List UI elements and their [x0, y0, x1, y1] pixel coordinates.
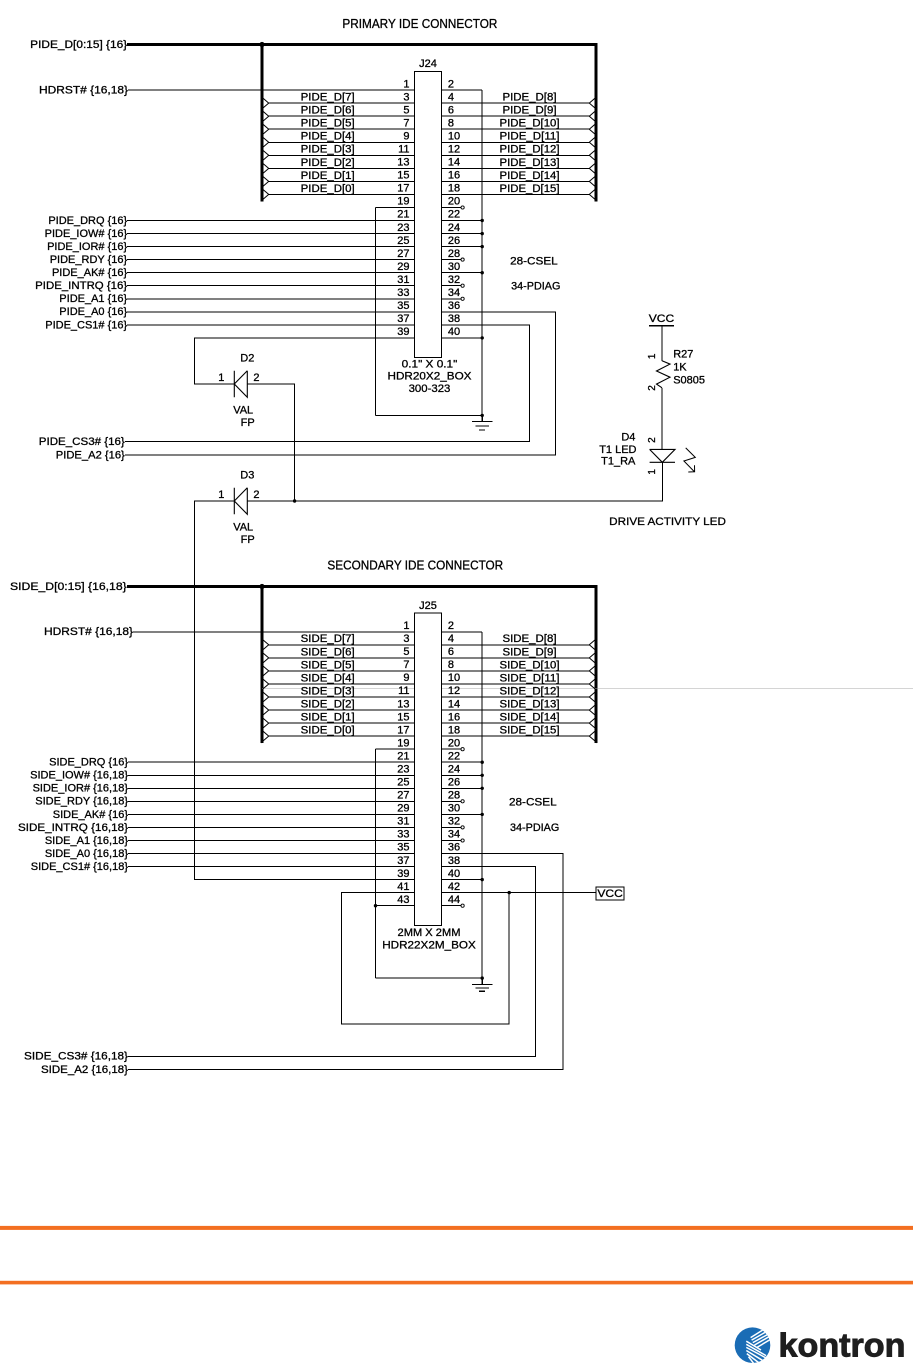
wire J24 pin 36 to PIDE_A2 [125, 312, 556, 455]
svg-text:SIDE_D[0:15] {16,18}: SIDE_D[0:15] {16,18} [10, 581, 127, 593]
wire SIDE_D[7] to J25 pin 3 [269, 644, 415, 646]
wire J24 pin 22 to gnd rail [442, 220, 483, 222]
wire SIDE_D[4] to J25 pin 9 [269, 683, 415, 685]
svg-text:29: 29 [397, 803, 409, 815]
svg-text:2: 2 [647, 385, 658, 391]
svg-text:26: 26 [448, 235, 460, 247]
svg-text:7: 7 [403, 117, 409, 129]
svg-text:42: 42 [448, 881, 460, 893]
wire J25 pin 36 to SIDE_A2 [128, 854, 563, 1070]
bus entry SIDE_D[5] (left) [261, 664, 269, 678]
svg-text:SIDE_D[0]: SIDE_D[0] [301, 725, 355, 737]
svg-text:6: 6 [448, 646, 454, 658]
svg-text:16: 16 [448, 170, 460, 182]
svg-text:21: 21 [397, 209, 409, 221]
svg-text:17: 17 [397, 724, 409, 736]
wire J24 pin 18 to bus entry PIDE_D[15] [442, 193, 590, 195]
svg-text:PIDE_AK# {16}: PIDE_AK# {16} [52, 267, 128, 279]
junction J24 pin 26 [481, 245, 484, 248]
svg-text:VCC: VCC [597, 888, 623, 900]
wire J25 pin 40 to gnd rail [442, 879, 483, 881]
svg-text:23: 23 [397, 764, 409, 776]
junction J25 pin 43 [374, 904, 377, 907]
wire PIDE_D[6] to J24 pin 5 [269, 115, 415, 117]
wire J25 pin 24 to gnd rail [442, 774, 483, 776]
svg-text:FP: FP [241, 417, 255, 429]
svg-text:SIDE_RDY {16,18}: SIDE_RDY {16,18} [35, 796, 128, 808]
svg-text:22: 22 [448, 750, 460, 762]
stray hairline artifact [262, 687, 913, 689]
svg-text:12: 12 [448, 685, 460, 697]
bus junction (secondary) [259, 584, 264, 589]
svg-text:28-CSEL: 28-CSEL [509, 796, 557, 808]
svg-text:S0805: S0805 [673, 375, 705, 387]
svg-text:32: 32 [448, 274, 460, 286]
bus entry PIDE_D[2] (left) [261, 162, 269, 176]
svg-text:J24: J24 [419, 58, 437, 70]
junction J24 pin 24 [481, 232, 484, 235]
junction gnd corner (J24) [481, 414, 484, 417]
wire PIDE_D[0] to J24 pin 17 [269, 193, 415, 195]
ground symbol J24 [472, 415, 493, 430]
svg-text:37: 37 [397, 855, 409, 867]
svg-text:SIDE_D[2]: SIDE_D[2] [301, 699, 355, 711]
svg-text:5: 5 [403, 646, 409, 658]
wire J25 pin 32 no-connect stub [442, 826, 462, 828]
wire PIDE_DRQ {16} to J24 pin 21 [127, 220, 414, 222]
svg-text:PIDE_D[11]: PIDE_D[11] [500, 131, 560, 143]
wire PIDE_CS1# {16} to J24 pin 37 [127, 324, 414, 326]
svg-text:36: 36 [448, 842, 460, 854]
svg-text:PIDE_IOW# {16}: PIDE_IOW# {16} [45, 228, 128, 240]
svg-text:HDR20X2_BOX: HDR20X2_BOX [388, 371, 473, 383]
wire J24 pin 38 to PIDE_CS3# [125, 325, 530, 442]
bus left vertical drop at x=262 [260, 45, 263, 202]
wire J24 pin 24 to gnd rail [442, 233, 483, 235]
svg-text:39: 39 [397, 326, 409, 338]
no-connect J25 pin 28 [461, 800, 464, 803]
wire gnd vertical x=375.5 (J24) [375, 208, 377, 416]
svg-text:44: 44 [448, 894, 460, 906]
svg-text:1: 1 [647, 469, 658, 475]
svg-text:SIDE_D[7]: SIDE_D[7] [301, 633, 355, 645]
svg-text:PIDE_INTRQ {16}: PIDE_INTRQ {16} [35, 280, 127, 292]
svg-text:2: 2 [647, 437, 658, 443]
gnd rail vertical x=482.2 (J25) [481, 632, 483, 985]
svg-text:13: 13 [397, 698, 409, 710]
svg-text:300-323: 300-323 [409, 383, 451, 395]
wire J24 pin 16 to bus entry PIDE_D[14] [442, 180, 590, 182]
no-connect J24 pin 34 [461, 297, 464, 300]
svg-text:PIDE_D[3]: PIDE_D[3] [301, 144, 355, 156]
wire gnd vertical x=375.5 (J25) [375, 749, 377, 978]
svg-text:SIDE_DRQ {16}: SIDE_DRQ {16} [49, 757, 128, 769]
svg-text:PIDE_IOR# {16}: PIDE_IOR# {16} [47, 241, 127, 253]
svg-text:SIDE_D[12]: SIDE_D[12] [500, 685, 560, 697]
svg-text:27: 27 [397, 790, 409, 802]
wire J24 pin 10 to bus entry PIDE_D[11] [442, 141, 590, 143]
svg-text:PIDE_A2 {16}: PIDE_A2 {16} [56, 449, 125, 461]
svg-text:SIDE_D[14]: SIDE_D[14] [500, 712, 560, 724]
svg-text:DRIVE ACTIVITY LED: DRIVE ACTIVITY LED [609, 516, 726, 528]
svg-text:SIDE_D[15]: SIDE_D[15] [500, 725, 560, 737]
svg-text:SIDE_D[13]: SIDE_D[13] [500, 699, 560, 711]
bus entry PIDE_D[5] (left) [261, 122, 269, 136]
svg-text:0.1" X 0.1": 0.1" X 0.1" [402, 358, 458, 370]
svg-text:41: 41 [397, 881, 409, 893]
svg-text:PIDE_D[10]: PIDE_D[10] [500, 118, 560, 130]
bus entry SIDE_D[2] (left) [261, 703, 269, 717]
svg-text:PIDE_A0 {16}: PIDE_A0 {16} [59, 306, 127, 318]
wire J25 pin 42 to VCC [442, 892, 596, 894]
bus left vertical drop at x=262 (secondary) [260, 587, 263, 744]
svg-text:1: 1 [218, 372, 224, 384]
svg-text:10: 10 [448, 672, 460, 684]
wire PIDE_D[7] to J24 pin 3 [269, 102, 415, 104]
svg-text:PIDE_A1 {16}: PIDE_A1 {16} [59, 293, 127, 305]
wire SIDE_D[5] to J25 pin 7 [269, 670, 415, 672]
wire J25 pin 19 gnd stub [376, 748, 415, 750]
svg-text:11: 11 [398, 144, 409, 156]
svg-text:PIDE_RDY {16}: PIDE_RDY {16} [50, 254, 128, 266]
svg-text:3: 3 [403, 633, 409, 645]
wire SIDE_DRQ {16} to J25 pin 21 [128, 761, 415, 763]
svg-text:25: 25 [397, 235, 409, 247]
bus entry PIDE_D[7] (left) [261, 96, 269, 110]
junction pin41/pin42 VCC node [508, 891, 511, 894]
junction J25 pin 24 [481, 774, 484, 777]
svg-text:43: 43 [397, 894, 409, 906]
wire J25 pin 22 to gnd rail [442, 761, 483, 763]
svg-text:PIDE_D[8]: PIDE_D[8] [503, 92, 557, 104]
wire J24 pin 32 no-connect stub [442, 285, 462, 287]
LED D4 symbol [650, 449, 675, 462]
svg-text:SIDE_A1 {16,18}: SIDE_A1 {16,18} [45, 835, 129, 847]
svg-text:20: 20 [448, 196, 460, 208]
svg-text:kontron: kontron [779, 1327, 906, 1364]
wire PIDE_A0 {16} to J24 pin 35 [127, 311, 414, 313]
svg-text:PIDE_D[12]: PIDE_D[12] [500, 144, 560, 156]
svg-text:HDR22X2M_BOX: HDR22X2M_BOX [382, 939, 476, 951]
svg-text:26: 26 [448, 777, 460, 789]
svg-text:34: 34 [448, 829, 460, 841]
svg-text:1: 1 [403, 78, 409, 90]
svg-text:34-PDIAG: 34-PDIAG [510, 822, 559, 834]
svg-text:SIDE_IOR# {16,18}: SIDE_IOR# {16,18} [33, 783, 129, 795]
svg-text:1: 1 [403, 620, 409, 632]
bus junction at (262,44.5) [259, 42, 264, 47]
svg-text:10: 10 [448, 131, 460, 143]
wire J24 pin 6 to bus entry PIDE_D[9] [442, 115, 590, 117]
wire SIDE_A1 {16,18} to J25 pin 33 [128, 840, 415, 842]
bus entry SIDE_D[3] (left) [261, 690, 269, 704]
svg-text:PIDE_DRQ {16}: PIDE_DRQ {16} [48, 215, 127, 227]
wire J24 pin 26 to gnd rail [442, 246, 483, 248]
wire SIDE_IOR# {16,18} to J25 pin 25 [128, 787, 415, 789]
wire D3 cathode to J25 pin 39 [195, 501, 415, 880]
svg-text:31: 31 [397, 816, 409, 828]
svg-text:36: 36 [448, 300, 460, 312]
svg-text:16: 16 [448, 711, 460, 723]
svg-text:PIDE_D[4]: PIDE_D[4] [301, 131, 355, 143]
wire SIDE_D[2] to J25 pin 13 [269, 709, 415, 711]
wire J25 pin 34 no-connect stub [442, 840, 462, 842]
junction J25 pin 26 [481, 787, 484, 790]
svg-text:29: 29 [397, 261, 409, 273]
no-connect J25 pin 34 [461, 839, 464, 842]
svg-text:SIDE_CS3# {16,18}: SIDE_CS3# {16,18} [24, 1051, 128, 1063]
wire J25 pin 6 to bus entry SIDE_D[9] [442, 657, 590, 659]
wire SIDE_RDY {16,18} to J25 pin 27 [128, 800, 415, 802]
svg-text:PIDE_D[6]: PIDE_D[6] [301, 105, 355, 117]
bus entry SIDE_D[12] (right) [589, 690, 597, 704]
svg-text:30: 30 [448, 261, 460, 273]
svg-text:31: 31 [397, 274, 409, 286]
bus entry SIDE_D[13] (right) [589, 703, 597, 717]
LED D4 light arrows [684, 448, 695, 472]
junction J25 pin 30 [481, 813, 484, 816]
wire J25 pin 43 to gnd vertical [376, 905, 415, 907]
bus entry PIDE_D[14] (right) [589, 175, 597, 189]
bus entry PIDE_D[9] (right) [589, 109, 597, 123]
svg-text:PIDE_D[0]: PIDE_D[0] [301, 183, 355, 195]
bus entry SIDE_D[11] (right) [589, 677, 597, 691]
svg-text:PIDE_CS3# {16}: PIDE_CS3# {16} [39, 436, 125, 448]
wire J24 pin 28 no-connect stub [442, 259, 462, 261]
svg-text:6: 6 [448, 104, 454, 116]
wire D2 anode to junction x=294.6 [247, 384, 294, 501]
svg-text:17: 17 [397, 183, 409, 195]
wire J25 pin 4 to bus entry SIDE_D[8] [442, 644, 590, 646]
bus entry SIDE_D[4] (left) [261, 677, 269, 691]
svg-text:9: 9 [403, 672, 409, 684]
wire SIDE_D[0] to J25 pin 17 [269, 735, 415, 737]
bus entry SIDE_D[9] (right) [589, 651, 597, 665]
wire J25 pin 26 to gnd rail [442, 787, 483, 789]
svg-text:3: 3 [403, 91, 409, 103]
svg-text:D4: D4 [621, 432, 635, 444]
svg-text:35: 35 [397, 842, 409, 854]
bus entry SIDE_D[14] (right) [589, 716, 597, 730]
svg-text:SIDE_IOW# {16,18}: SIDE_IOW# {16,18} [30, 770, 128, 782]
bus entry SIDE_D[8] (right) [589, 638, 597, 652]
wire LED cathode to drive-activity node [295, 462, 663, 501]
svg-text:PIDE_D[13]: PIDE_D[13] [500, 157, 560, 169]
no-connect J25 pin 44 [461, 904, 464, 907]
svg-text:HDRST# {16,18}: HDRST# {16,18} [39, 85, 128, 97]
svg-text:SIDE_D[10]: SIDE_D[10] [500, 659, 560, 671]
svg-text:37: 37 [397, 313, 409, 325]
svg-text:2: 2 [253, 489, 259, 501]
svg-text:VCC: VCC [649, 313, 675, 325]
wire SIDE_D[6] to J25 pin 5 [269, 657, 415, 659]
svg-text:8: 8 [448, 659, 454, 671]
wire J25 pin 2 to gnd rail [442, 631, 483, 633]
no-connect J25 pin 20 [461, 748, 464, 751]
svg-text:SIDE_CS1# {16,18}: SIDE_CS1# {16,18} [31, 861, 129, 873]
svg-text:11: 11 [398, 685, 409, 697]
svg-text:1: 1 [218, 489, 224, 501]
wire J25 pin 30 to gnd rail [442, 813, 483, 815]
wire J25 pin 12 to bus entry SIDE_D[12] [442, 696, 590, 698]
svg-text:PIDE_D[15]: PIDE_D[15] [500, 183, 560, 195]
svg-text:19: 19 [397, 196, 409, 208]
bus entry SIDE_D[10] (right) [589, 664, 597, 678]
wire SIDE_A0 {16,18} to J25 pin 35 [128, 853, 415, 855]
bus entry SIDE_D[7] (left) [261, 638, 269, 652]
svg-text:20: 20 [448, 737, 460, 749]
svg-text:SIDE_INTRQ {16,18}: SIDE_INTRQ {16,18} [18, 822, 128, 834]
svg-text:25: 25 [397, 777, 409, 789]
svg-text:38: 38 [448, 855, 460, 867]
wire J25 pin 16 to bus entry SIDE_D[14] [442, 722, 590, 724]
wire J24 pin 34 no-connect stub [442, 298, 462, 300]
svg-text:SIDE_D[1]: SIDE_D[1] [301, 712, 355, 724]
wire PIDE_IOW# {16} to J24 pin 23 [127, 233, 414, 235]
svg-text:SIDE_D[6]: SIDE_D[6] [301, 646, 355, 658]
wire J25 pin 20 no-connect stub [442, 748, 462, 750]
wire J25 pin 10 to bus entry SIDE_D[11] [442, 683, 590, 685]
svg-text:28: 28 [448, 248, 460, 260]
svg-text:30: 30 [448, 803, 460, 815]
svg-text:7: 7 [403, 659, 409, 671]
junction J24 pin 40 [481, 336, 484, 339]
wire J24 pin 40 to gnd rail [442, 337, 483, 339]
wire PIDE_AK# {16} to J24 pin 29 [127, 272, 414, 274]
junction J24 pin 22 [481, 219, 484, 222]
no-connect J25 pin 32 [461, 826, 464, 829]
wire R27 to LED D4 [661, 388, 663, 450]
wire HDRST# to J24 pin 1 [128, 89, 415, 91]
svg-text:1: 1 [647, 353, 658, 359]
ground symbol J25 [472, 978, 493, 991]
wire PIDE_IOR# {16} to J24 pin 25 [127, 246, 414, 248]
svg-text:PIDE_D[2]: PIDE_D[2] [301, 157, 355, 169]
svg-text:2MM X 2MM: 2MM X 2MM [398, 927, 461, 939]
svg-text:38: 38 [448, 313, 460, 325]
svg-text:27: 27 [397, 248, 409, 260]
svg-text:T1_RA: T1_RA [601, 455, 636, 467]
svg-text:2: 2 [448, 620, 454, 632]
svg-text:VAL: VAL [233, 405, 253, 417]
svg-text:28-CSEL: 28-CSEL [510, 255, 558, 267]
bus entry SIDE_D[1] (left) [261, 716, 269, 730]
svg-text:32: 32 [448, 816, 460, 828]
svg-text:PIDE_D[7]: PIDE_D[7] [301, 92, 355, 104]
wire J25 pin 8 to bus entry SIDE_D[10] [442, 670, 590, 672]
svg-text:9: 9 [403, 131, 409, 143]
wire PIDE_A1 {16} to J24 pin 33 [127, 298, 414, 300]
connector J24 body [415, 72, 442, 358]
wire J25 pin 18 to bus entry SIDE_D[15] [442, 735, 590, 737]
svg-text:34: 34 [448, 287, 460, 299]
wire PIDE_D[1] to J24 pin 15 [269, 180, 415, 182]
wire J24 pin 14 to bus entry PIDE_D[13] [442, 167, 590, 169]
svg-text:SIDE_D[8]: SIDE_D[8] [503, 633, 557, 645]
wire SIDE_D[3] to J25 pin 11 [269, 696, 415, 698]
svg-text:2: 2 [253, 372, 259, 384]
junction J25 pin 40 [481, 878, 484, 881]
wire J24 pin 2 to gnd rail [442, 89, 483, 91]
svg-text:SIDE_D[3]: SIDE_D[3] [301, 685, 355, 697]
svg-text:23: 23 [397, 222, 409, 234]
wire J25 pin 44 no-connect stub [442, 905, 462, 907]
footer orange rule upper [0, 1226, 913, 1230]
svg-text:PIDE_D[0:15] {16}: PIDE_D[0:15] {16} [30, 39, 127, 51]
wire PIDE_INTRQ {16} to J24 pin 31 [127, 285, 414, 287]
svg-text:D3: D3 [240, 469, 254, 481]
bus entry PIDE_D[8] (right) [589, 96, 597, 110]
svg-text:SECONDARY IDE CONNECTOR: SECONDARY IDE CONNECTOR [327, 558, 503, 573]
bus entry PIDE_D[15] (right) [589, 188, 597, 202]
wire gnd bottom horizontal (J24) [376, 414, 483, 416]
no-connect J24 pin 32 [461, 284, 464, 287]
svg-text:39: 39 [397, 868, 409, 880]
svg-text:SIDE_D[5]: SIDE_D[5] [301, 659, 355, 671]
svg-text:FP: FP [241, 534, 255, 546]
svg-text:22: 22 [448, 209, 460, 221]
junction D2/D3/LED node [293, 499, 296, 502]
svg-text:D2: D2 [240, 352, 254, 364]
svg-text:34-PDIAG: 34-PDIAG [511, 281, 560, 293]
wire J25 pin 28 no-connect stub [442, 800, 462, 802]
wire J25 pin 41 U-route [342, 893, 510, 1024]
wire J24 pin 8 to bus entry PIDE_D[10] [442, 128, 590, 130]
svg-text:J25: J25 [419, 600, 437, 612]
svg-text:SIDE_D[11]: SIDE_D[11] [500, 672, 560, 684]
svg-text:40: 40 [448, 868, 460, 880]
wire D3 anode to junction [247, 500, 294, 502]
bus entry PIDE_D[3] (left) [261, 149, 269, 163]
connector J25 body [415, 613, 442, 925]
svg-text:19: 19 [397, 737, 409, 749]
resistor R27 zigzag [657, 361, 671, 388]
svg-text:18: 18 [448, 724, 460, 736]
bus entry SIDE_D[15] (right) [589, 729, 597, 743]
bus SIDE_D[0:15] horizontal + right vertical [127, 587, 596, 744]
svg-text:33: 33 [397, 829, 409, 841]
bus entry PIDE_D[0] (left) [261, 188, 269, 202]
svg-text:35: 35 [397, 300, 409, 312]
wire SIDE_D[1] to J25 pin 15 [269, 722, 415, 724]
svg-text:HDRST# {16,18}: HDRST# {16,18} [44, 626, 133, 638]
svg-text:SIDE_A0 {16,18}: SIDE_A0 {16,18} [45, 848, 129, 860]
no-connect J24 pin 20 [461, 206, 464, 209]
svg-text:PRIMARY IDE CONNECTOR: PRIMARY IDE CONNECTOR [342, 16, 497, 31]
wire PIDE_D[2] to J24 pin 13 [269, 167, 415, 169]
bus entry PIDE_D[6] (left) [261, 109, 269, 123]
bus entry PIDE_D[13] (right) [589, 162, 597, 176]
bus entry PIDE_D[10] (right) [589, 122, 597, 136]
wire SIDE_IOW# {16,18} to J25 pin 23 [128, 774, 415, 776]
wire SIDE_CS1# {16,18} to J25 pin 37 [128, 866, 415, 868]
bus entry SIDE_D[6] (left) [261, 651, 269, 665]
wire J24 pin 19 gnd stub [376, 207, 415, 209]
svg-text:5: 5 [403, 104, 409, 116]
svg-text:12: 12 [448, 144, 460, 156]
wire J24 pin 4 to bus entry PIDE_D[8] [442, 102, 590, 104]
junction gnd corner (J25) [481, 976, 484, 979]
svg-text:T1 LED: T1 LED [599, 444, 636, 456]
footer orange rule lower [0, 1281, 913, 1285]
bus entry PIDE_D[11] (right) [589, 136, 597, 150]
wire gnd bottom horizontal (J25) [376, 977, 483, 979]
wire SIDE_INTRQ {16,18} to J25 pin 31 [128, 826, 415, 828]
svg-text:14: 14 [448, 698, 460, 710]
junction J24 pin 30 [481, 271, 484, 274]
bus entry PIDE_D[12] (right) [589, 149, 597, 163]
svg-text:4: 4 [448, 633, 454, 645]
